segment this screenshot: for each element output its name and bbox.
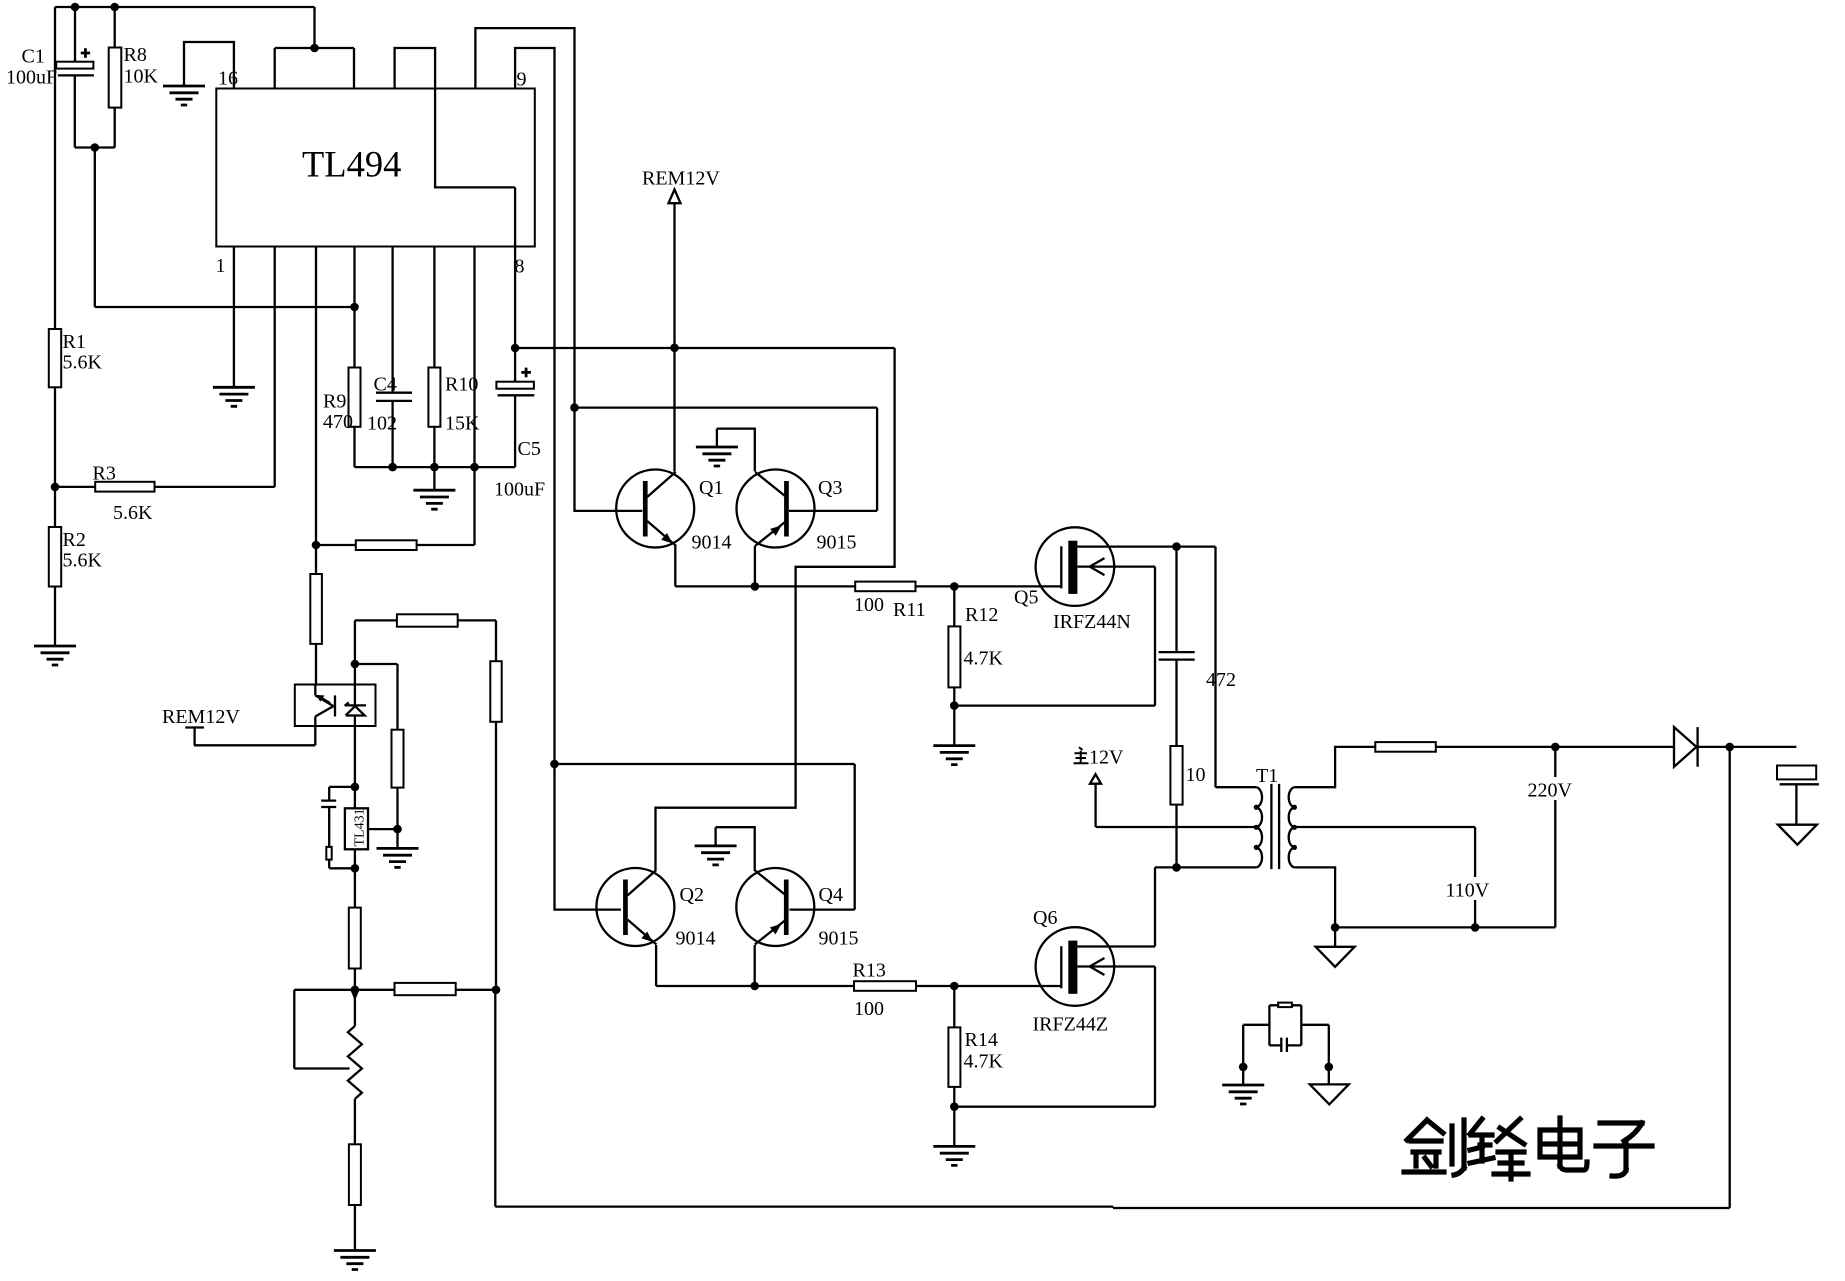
svg-text:470: 470: [323, 411, 353, 433]
svg-text:R11: R11: [893, 599, 926, 621]
svg-text:100: 100: [854, 998, 884, 1020]
svg-text:R9: R9: [323, 391, 346, 413]
svg-text:IRFZ44Z: IRFZ44Z: [1033, 1014, 1109, 1036]
svg-text:472: 472: [1206, 669, 1236, 691]
svg-text:C5: C5: [518, 438, 541, 460]
svg-text:15K: 15K: [445, 413, 480, 435]
svg-text:110V: 110V: [1446, 880, 1490, 902]
svg-text:12V: 12V: [1089, 747, 1124, 769]
svg-text:REM12V: REM12V: [642, 168, 720, 190]
svg-text:5.6K: 5.6K: [113, 502, 153, 524]
svg-text:4.7K: 4.7K: [964, 648, 1004, 670]
svg-text:5.6K: 5.6K: [63, 352, 103, 374]
svg-text:10K: 10K: [124, 66, 159, 88]
svg-text:8: 8: [515, 256, 525, 278]
svg-text:5.6K: 5.6K: [63, 550, 103, 572]
svg-text:T1: T1: [1256, 765, 1278, 787]
svg-text:1: 1: [216, 255, 226, 277]
svg-text:Q3: Q3: [818, 477, 842, 499]
svg-text:Q2: Q2: [680, 884, 704, 906]
svg-text:R1: R1: [63, 331, 86, 353]
svg-text:100uF: 100uF: [6, 67, 57, 89]
svg-text:C1: C1: [22, 46, 45, 68]
svg-text:R13: R13: [853, 960, 886, 982]
svg-text:R3: R3: [93, 463, 116, 485]
svg-text:102: 102: [367, 413, 397, 435]
svg-text:R8: R8: [124, 44, 147, 66]
svg-text:R2: R2: [63, 529, 86, 551]
svg-text:C4: C4: [374, 374, 397, 396]
svg-text:R14: R14: [965, 1029, 998, 1051]
svg-text:100uF: 100uF: [494, 479, 545, 501]
svg-text:16: 16: [218, 68, 238, 90]
svg-text:Q5: Q5: [1014, 587, 1038, 609]
svg-text:TL431: TL431: [353, 808, 368, 846]
svg-text:Q4: Q4: [819, 884, 843, 906]
svg-text:10: 10: [1186, 764, 1206, 786]
svg-text:9014: 9014: [676, 928, 716, 950]
svg-text:REM12V: REM12V: [162, 706, 240, 728]
svg-text:9015: 9015: [819, 928, 859, 950]
svg-text:R10: R10: [445, 374, 478, 396]
svg-text:R12: R12: [965, 604, 998, 626]
svg-text:9: 9: [517, 69, 527, 91]
svg-text:TL494: TL494: [302, 144, 401, 185]
svg-text:Q1: Q1: [699, 477, 723, 499]
svg-text:100: 100: [854, 594, 884, 616]
svg-text:Q6: Q6: [1033, 907, 1057, 929]
svg-text:220V: 220V: [1528, 780, 1573, 802]
svg-text:9014: 9014: [692, 532, 732, 554]
svg-text:4.7K: 4.7K: [964, 1051, 1004, 1073]
svg-text:9015: 9015: [817, 532, 857, 554]
svg-text:IRFZ44N: IRFZ44N: [1053, 611, 1131, 633]
